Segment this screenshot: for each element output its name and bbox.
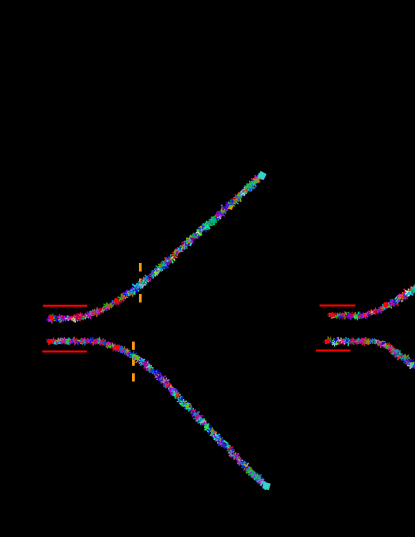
tip cluster upper-left [244,173,263,191]
cyan tip marker lower-left [262,482,270,490]
upper-right branch scatter [327,284,415,321]
orange dashed line lower [132,342,135,382]
orange dashed line upper [139,263,142,303]
red line lower-right [316,350,351,352]
red dot start upper-left [49,315,54,320]
red dot start lower-right [325,339,330,344]
red dot start upper-right [330,312,335,317]
tip cluster lower-left [250,471,269,489]
cyan tip marker upper-left [257,171,266,180]
red dot elbow upper-left [114,298,119,303]
red line upper-left [43,305,87,307]
red dot elbow upper-right [383,302,388,307]
lower-left branch scatter [45,336,268,490]
upper-left branch scatter [46,172,266,323]
red line upper-right [320,305,356,307]
red dot start lower-left [47,339,52,344]
lower-right branch scatter [323,336,415,369]
red dot elbow lower-left [115,345,120,350]
red line lower-left [42,351,87,353]
